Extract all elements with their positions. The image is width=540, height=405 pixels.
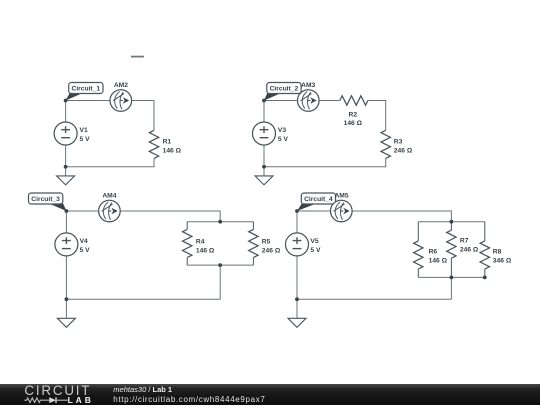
node flag Circuit_4 bbox=[297, 193, 336, 211]
ammeter AM2 bbox=[110, 90, 132, 112]
svg-text:5 V: 5 V bbox=[310, 247, 321, 254]
junction bbox=[65, 297, 69, 301]
wire bbox=[368, 101, 386, 131]
junction bbox=[218, 220, 222, 224]
wire bbox=[65, 256, 67, 299]
ground bbox=[57, 299, 75, 327]
wire bbox=[187, 264, 253, 266]
circuit 3 bbox=[29, 192, 281, 327]
node flag Circuit_3 bbox=[29, 193, 67, 211]
voltage source V1 bbox=[54, 122, 77, 145]
svg-text:246 Ω: 246 Ω bbox=[262, 247, 281, 254]
svg-text:R3: R3 bbox=[394, 139, 403, 146]
svg-text:146 Ω: 146 Ω bbox=[196, 247, 215, 254]
svg-text:R5: R5 bbox=[262, 239, 271, 246]
voltage source V4 bbox=[55, 233, 78, 256]
junction bbox=[450, 276, 454, 280]
footer bar bbox=[0, 384, 540, 405]
svg-text:146 Ω: 146 Ω bbox=[429, 257, 448, 264]
svg-text:246 Ω: 246 Ω bbox=[460, 247, 479, 254]
wire bbox=[65, 101, 67, 123]
svg-text:R2: R2 bbox=[349, 112, 358, 119]
resistor R5 bbox=[249, 222, 258, 265]
wire bbox=[263, 101, 265, 123]
wire bbox=[66, 158, 154, 166]
svg-text:V1: V1 bbox=[80, 127, 88, 134]
svg-text:5 V: 5 V bbox=[278, 136, 289, 143]
wire bbox=[66, 100, 110, 102]
wire bbox=[264, 158, 386, 166]
ammeter AM3 bbox=[298, 90, 320, 112]
wire bbox=[65, 211, 67, 233]
node flag Circuit_1 bbox=[66, 83, 103, 101]
svg-text:Circuit_1: Circuit_1 bbox=[71, 85, 100, 92]
resistor R4 bbox=[183, 222, 192, 265]
footer title: mehtas30 / Lab 1 bbox=[113, 386, 172, 394]
junction bbox=[295, 209, 299, 213]
svg-text:246 Ω: 246 Ω bbox=[394, 147, 413, 154]
resistor R8 bbox=[480, 222, 489, 278]
wire bbox=[65, 145, 67, 167]
wire bbox=[418, 276, 485, 278]
wire bbox=[297, 298, 451, 300]
circuit 4 bbox=[286, 192, 512, 327]
wire bbox=[297, 210, 331, 212]
svg-text:Circuit_4: Circuit_4 bbox=[304, 196, 333, 203]
ground bbox=[57, 167, 75, 185]
junction bbox=[262, 99, 266, 103]
svg-text:Circuit_3: Circuit_3 bbox=[31, 196, 60, 203]
svg-text:5 V: 5 V bbox=[80, 247, 91, 254]
svg-text:V3: V3 bbox=[278, 127, 286, 134]
svg-text:AM4: AM4 bbox=[102, 192, 116, 199]
resistor R6 bbox=[414, 222, 423, 278]
junction bbox=[483, 276, 487, 280]
resistor R7 bbox=[447, 222, 456, 278]
svg-text:V5: V5 bbox=[310, 238, 318, 245]
wire bbox=[296, 256, 298, 299]
svg-text:R8: R8 bbox=[493, 249, 502, 256]
wire bbox=[66, 210, 98, 212]
junction bbox=[450, 220, 454, 224]
wire bbox=[418, 221, 485, 223]
svg-text:5 V: 5 V bbox=[80, 136, 91, 143]
svg-text:AM5: AM5 bbox=[334, 192, 348, 199]
circuit 1 bbox=[54, 82, 182, 185]
junction bbox=[64, 99, 68, 103]
resistor R1 bbox=[149, 130, 158, 158]
footer url bbox=[113, 396, 265, 404]
wire bbox=[263, 145, 265, 167]
wire bbox=[296, 211, 298, 233]
svg-text:AM2: AM2 bbox=[114, 82, 128, 89]
wire bbox=[66, 298, 220, 300]
voltage source V3 bbox=[253, 122, 276, 145]
svg-text:146 Ω: 146 Ω bbox=[344, 120, 363, 127]
wire bbox=[187, 221, 253, 223]
svg-text:146 Ω: 146 Ω bbox=[163, 147, 182, 154]
junction bbox=[218, 263, 222, 267]
svg-text:Circuit_2: Circuit_2 bbox=[270, 85, 299, 92]
ammeter AM5 bbox=[331, 200, 353, 222]
junction bbox=[262, 165, 266, 169]
ground bbox=[255, 167, 273, 185]
resistor R3 bbox=[381, 130, 390, 158]
ammeter AM4 bbox=[99, 200, 121, 222]
resistor R2 bbox=[340, 96, 368, 105]
wire bbox=[450, 277, 452, 299]
wire bbox=[352, 211, 451, 222]
CircuitLab logo text LAB bbox=[68, 396, 94, 405]
junction bbox=[64, 165, 68, 169]
ground bbox=[288, 299, 306, 327]
CircuitLab logo text CIRCUIT bbox=[24, 384, 91, 397]
junction bbox=[295, 297, 299, 301]
junction bbox=[65, 209, 69, 213]
svg-text:R1: R1 bbox=[163, 139, 172, 146]
CircuitLab logo resistor-diode glyph bbox=[23, 396, 69, 405]
text dash bbox=[131, 56, 144, 58]
circuit 2 bbox=[253, 82, 413, 185]
svg-text:R6: R6 bbox=[429, 249, 438, 256]
voltage source V5 bbox=[286, 233, 309, 256]
wire bbox=[219, 265, 221, 299]
svg-text:R4: R4 bbox=[196, 239, 205, 246]
svg-text:346 Ω: 346 Ω bbox=[493, 257, 512, 264]
svg-text:V4: V4 bbox=[80, 238, 88, 245]
wire bbox=[264, 100, 298, 102]
svg-text:AM3: AM3 bbox=[301, 82, 315, 89]
node flag Circuit_2 bbox=[264, 83, 301, 101]
wire bbox=[132, 101, 154, 131]
svg-text:R7: R7 bbox=[460, 238, 469, 245]
wire bbox=[319, 100, 340, 102]
wire bbox=[120, 211, 220, 222]
